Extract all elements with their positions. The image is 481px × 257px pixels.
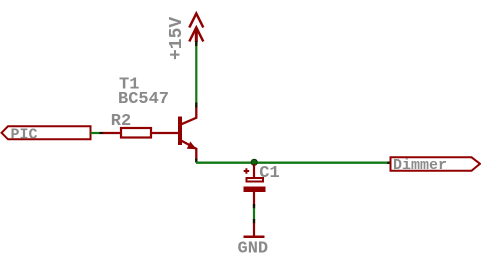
transistor T1 emitter: [182, 141, 197, 160]
wire emitter to Dimmer: [196, 161, 390, 163]
junction overlap gnd: [253, 219, 255, 224]
wire C1 to GND: [253, 208, 255, 220]
ground symbol bar: [244, 236, 265, 239]
svg-text:GND: GND: [238, 239, 269, 257]
svg-text:R2: R2: [111, 112, 131, 131]
junction overlap top: [195, 41, 197, 46]
net tag PIC: [2, 126, 91, 139]
transistor T1 base bar: [178, 117, 182, 146]
supply +15V arrow upper chevron: [189, 14, 203, 28]
supply +15V arrow stem: [195, 28, 198, 42]
pin wire R2 right to base: [151, 132, 178, 134]
net tag Dimmer: [391, 157, 481, 171]
junction overlap cap: [253, 204, 255, 209]
junction overlap: [100, 132, 104, 134]
junction overlap emitter: [195, 159, 197, 163]
svg-text:C1: C1: [259, 164, 279, 183]
pin wire GND: [253, 223, 255, 236]
pin wire C1 bottom: [253, 192, 255, 206]
capacitor C1 top plate: [247, 178, 264, 182]
wire PIC to R2: [91, 132, 101, 134]
resistor R2: [121, 128, 151, 138]
junction overlap collector: [195, 103, 197, 108]
svg-text:+15V: +15V: [167, 17, 187, 60]
junction overlap dimmer: [387, 161, 391, 163]
capacitor C1 bottom plate: [244, 187, 266, 193]
supply +15V arrow lower chevron: [189, 28, 203, 42]
pin wire C1 top: [253, 164, 255, 178]
pin wire R2 left: [103, 132, 121, 134]
capacitor C1 plus sign: [244, 168, 250, 174]
wire +15V to collector: [195, 43, 197, 104]
transistor T1 emitter arrow: [187, 142, 197, 150]
svg-text:Dimmer: Dimmer: [393, 157, 447, 174]
transistor T1 collector: [182, 106, 197, 124]
junction node: [251, 159, 257, 165]
svg-text:BC547: BC547: [118, 90, 169, 109]
svg-text:PIC: PIC: [11, 127, 38, 144]
